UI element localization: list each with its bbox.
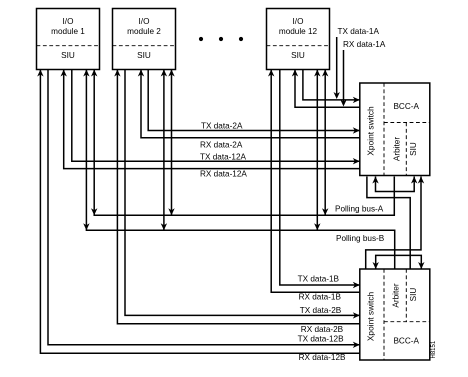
label TX data-1B: [298, 274, 340, 283]
svg-text:TX data-2A: TX data-2A: [201, 121, 243, 130]
wire RX data-12A: [61, 70, 360, 169]
label RX data-12A: [200, 170, 247, 179]
svg-text:TX data-1A: TX data-1A: [338, 27, 380, 36]
wire BCC-B bus bracket: [373, 255, 425, 269]
svg-text:SIU: SIU: [61, 51, 75, 60]
polling bus-B tap module 12: [314, 70, 320, 231]
svg-text:H8151: H8151: [431, 340, 437, 358]
wire TX data-1B: [280, 70, 360, 289]
svg-text:RX data-12A: RX data-12A: [200, 170, 247, 179]
svg-text:I/O: I/O: [139, 17, 150, 26]
svg-text:Polling bus-B: Polling bus-B: [336, 234, 385, 243]
svg-text:RX data-1A: RX data-1A: [343, 40, 386, 49]
label TX data-2A: [201, 121, 243, 130]
svg-text:RX data-12B: RX data-12B: [299, 353, 346, 362]
polling bus-B tap module 2: [161, 70, 167, 231]
svg-text:module 12: module 12: [279, 27, 318, 36]
label polling bus-B: [336, 234, 385, 243]
svg-text:RX data-2B: RX data-2B: [301, 325, 344, 334]
svg-text:SIU: SIU: [409, 142, 418, 156]
label RX data-12B: [299, 353, 346, 362]
wire RX data-12B: [37, 70, 360, 354]
label RX data-2A: [200, 141, 243, 150]
label TX data-12B: [298, 334, 345, 343]
svg-text:RX data-2A: RX data-2A: [200, 141, 243, 150]
wire TX data-2A: [148, 70, 360, 134]
wire RX data-2B: [114, 70, 360, 324]
svg-text:I/O: I/O: [293, 17, 304, 26]
svg-text:SIU: SIU: [409, 288, 418, 302]
wire RX data-1A: [292, 70, 360, 108]
wire polling bus-A: [91, 70, 394, 216]
wire RX data-2A: [138, 70, 360, 138]
wire BCC-A to BCC-B crossover 1: [367, 177, 410, 270]
svg-text:SIU: SIU: [291, 51, 305, 60]
label RX data-1A with leader: [340, 40, 386, 107]
label RX data-2B: [301, 325, 344, 334]
wire polling bus-B: [83, 70, 395, 270]
svg-text:module 2: module 2: [127, 27, 161, 36]
BCC-A: [360, 83, 430, 176]
I/O module 2 box: [113, 9, 176, 70]
wire BCC-B to BCC-A crossover 2: [366, 177, 425, 270]
svg-text:SIU: SIU: [137, 51, 151, 60]
wire TX data-2B: [125, 70, 360, 319]
svg-text:BCC-A: BCC-A: [393, 102, 419, 111]
wire TX data-12B: [48, 70, 360, 349]
svg-text:RX data-1B: RX data-1B: [299, 292, 342, 301]
BCC-B: [360, 269, 430, 360]
svg-text:TX data-2B: TX data-2B: [300, 306, 342, 315]
svg-text:Arbiter: Arbiter: [393, 137, 402, 161]
svg-text:TX data-12B: TX data-12B: [298, 334, 345, 343]
svg-text:TX data-12A: TX data-12A: [200, 152, 247, 161]
label RX data-1B: [299, 292, 342, 301]
svg-text:TX data-1B: TX data-1B: [298, 274, 340, 283]
polling bus-A tap module 2: [168, 70, 174, 216]
svg-text:Polling bus-A: Polling bus-A: [335, 205, 384, 214]
label TX data-12A: [200, 152, 247, 161]
svg-text:Arbiter: Arbiter: [391, 283, 400, 307]
I/O module 1 box: [37, 9, 100, 70]
polling bus-A tap module 12: [322, 70, 328, 216]
label TX data-1A with leader: [334, 27, 380, 99]
svg-text:module 1: module 1: [51, 27, 85, 36]
wire TX data-12A: [72, 70, 360, 165]
label polling bus-A: [335, 205, 384, 214]
svg-text:Xpoint switch: Xpoint switch: [365, 291, 375, 341]
wire TX data-1A: [303, 70, 360, 104]
label TX data-2B: [300, 306, 342, 315]
svg-text:I/O: I/O: [63, 17, 74, 26]
svg-text:Xpoint switch: Xpoint switch: [365, 106, 375, 156]
I/O module 12 box: [267, 9, 330, 70]
wire BCC-A bus bracket: [372, 177, 417, 192]
figure id H8151: [431, 340, 437, 358]
svg-text:BCC-A: BCC-A: [393, 337, 419, 346]
ellipsis dots: [199, 37, 243, 41]
wire RX data-1B: [268, 70, 360, 293]
